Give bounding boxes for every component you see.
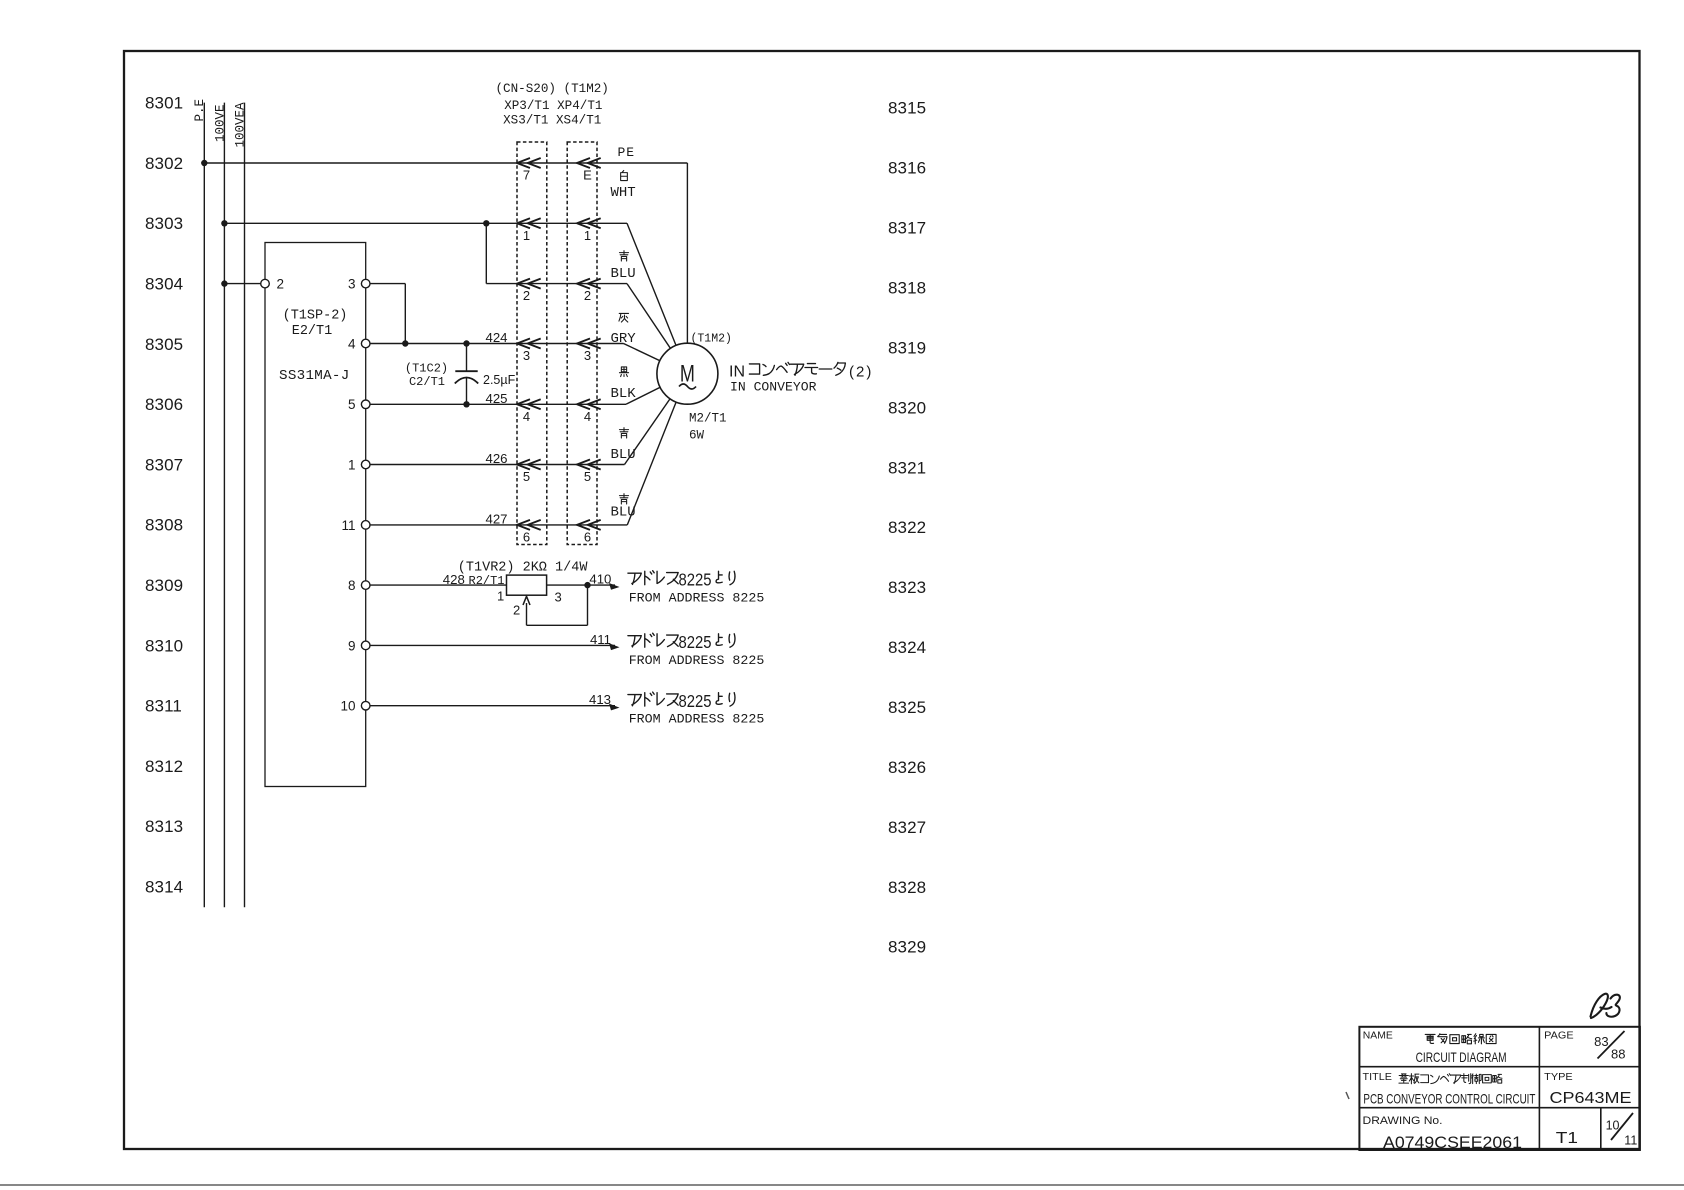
svg-text:T1: T1 — [1556, 1130, 1578, 1147]
contact XP3/XS3 pin 1 — [517, 218, 541, 228]
wire 100VE bus to connector pin 2 — [224, 283, 260, 285]
svg-text:8320: 8320 — [888, 398, 926, 417]
svg-text:4: 4 — [584, 409, 591, 424]
wire colour GRY — [611, 313, 637, 347]
svg-text:FROM ADDRESS 8225: FROM ADDRESS 8225 — [629, 653, 765, 668]
svg-text:(T1C2): (T1C2) — [405, 361, 448, 375]
svg-text:413: 413 — [589, 692, 611, 707]
svg-text:8225: 8225 — [679, 570, 712, 590]
svg-text:(T1SP-2): (T1SP-2) — [283, 309, 348, 324]
svg-text:8308: 8308 — [145, 516, 183, 535]
svg-text:WHT: WHT — [611, 185, 636, 201]
motor M2/T1 (T1M2) IN CONVEYOR MOTOR(2) 6W — [657, 343, 718, 404]
svg-text:8304: 8304 — [145, 275, 183, 294]
contact XP4/XS4 pin 5 — [577, 460, 601, 470]
contact XP4/XS4 pin 3 — [577, 339, 601, 349]
svg-text:428: 428 — [443, 572, 465, 587]
svg-text:CP643ME: CP643ME — [1550, 1090, 1632, 1107]
svg-text:7: 7 — [523, 168, 530, 183]
svg-text:GRY: GRY — [611, 331, 637, 347]
svg-text:3: 3 — [584, 348, 591, 363]
svg-text:BLU: BLU — [611, 266, 636, 282]
connector SS31MA-J (T1SP-2) E2/T1 — [265, 243, 366, 787]
svg-text:8314: 8314 — [145, 878, 183, 897]
svg-text:BLK: BLK — [611, 386, 637, 402]
svg-text:8319: 8319 — [888, 338, 926, 357]
contact XP3/XS3 pin 3 — [517, 339, 541, 349]
svg-text:8326: 8326 — [888, 758, 926, 777]
contact XP3/XS3 pin 7 — [517, 158, 541, 168]
svg-text:2: 2 — [523, 288, 530, 303]
svg-text:8225: 8225 — [679, 632, 712, 652]
svg-text:2: 2 — [277, 277, 285, 292]
svg-text:NAME: NAME — [1363, 1030, 1393, 1042]
wire 425 BLK row 8306 pin 5 to motor — [370, 403, 626, 405]
svg-text:2.5µF: 2.5µF — [483, 373, 516, 387]
svg-text:8323: 8323 — [888, 578, 926, 597]
svg-text:83: 83 — [1594, 1034, 1608, 1049]
svg-text:88: 88 — [1611, 1046, 1625, 1061]
capacitor C2/T1 (T1C2) 2.5uF — [466, 344, 468, 372]
svg-text:R2/T1: R2/T1 — [469, 574, 505, 588]
svg-text:8309: 8309 — [145, 576, 183, 595]
svg-text:8306: 8306 — [145, 395, 183, 414]
contact XP3/XS3 pin 6 — [517, 520, 541, 530]
svg-text:A0749CSEE2061: A0749CSEE2061 — [1383, 1133, 1522, 1152]
pin 11 — [361, 521, 370, 530]
svg-text:1: 1 — [348, 457, 356, 472]
wire colour WHT — [611, 170, 636, 201]
svg-text:8327: 8327 — [888, 818, 926, 837]
svg-text:TYPE: TYPE — [1544, 1071, 1573, 1083]
svg-text:8310: 8310 — [145, 636, 183, 655]
svg-text:P.E: P.E — [193, 99, 207, 122]
svg-text:M2/T1: M2/T1 — [689, 412, 727, 426]
svg-text:CIRCUIT DIAGRAM: CIRCUIT DIAGRAM — [1416, 1049, 1507, 1065]
svg-text:8303: 8303 — [145, 214, 183, 233]
svg-text:2: 2 — [584, 288, 591, 303]
svg-text:3: 3 — [523, 348, 530, 363]
title block — [1359, 1027, 1640, 1150]
svg-text:100VEA: 100VEA — [233, 102, 247, 148]
wire pin 3 branch to wire 424 — [370, 283, 405, 285]
svg-text:10: 10 — [340, 699, 355, 714]
wire colour BLU — [611, 251, 636, 282]
svg-text:9: 9 — [348, 638, 356, 653]
net 100VEA bus — [244, 103, 246, 908]
svg-text:8305: 8305 — [145, 335, 183, 354]
svg-text:TITLE: TITLE — [1363, 1071, 1392, 1083]
pin 8 — [361, 581, 370, 590]
svg-text:6: 6 — [523, 529, 530, 544]
svg-text:(CN-S20) (T1M2): (CN-S20) (T1M2) — [496, 82, 609, 96]
svg-text:1: 1 — [497, 589, 504, 604]
svg-text:424: 424 — [485, 330, 507, 345]
svg-text:XS3/T1 XS4/T1: XS3/T1 XS4/T1 — [503, 114, 601, 128]
pin 3 — [361, 279, 370, 288]
svg-text:E: E — [583, 168, 592, 183]
wire colour BLU — [611, 494, 636, 521]
pin 5 — [361, 400, 370, 409]
svg-text:XP3/T1 XP4/T1: XP3/T1 XP4/T1 — [504, 99, 602, 113]
svg-text:8318: 8318 — [888, 279, 926, 298]
net P.E bus — [203, 103, 205, 908]
svg-text:1: 1 — [523, 228, 530, 243]
connector XP3/T1 XS3/T1 dashed outline — [517, 142, 547, 545]
pin 9 — [361, 641, 370, 650]
wire WHT row 8303 from 100VE bus to motor — [224, 222, 627, 224]
wire 427 BLU row 8308 pin 11 to motor — [370, 524, 627, 526]
svg-text:4: 4 — [523, 409, 530, 424]
contact XP4/XS4 pin E — [577, 158, 601, 168]
wire 413 row 8311 signal to address 8225 — [370, 705, 615, 707]
svg-text:8313: 8313 — [145, 817, 183, 836]
svg-text:C2/T1: C2/T1 — [409, 375, 445, 389]
svg-text:BLU: BLU — [611, 447, 636, 463]
svg-text:IN: IN — [729, 364, 745, 381]
svg-text:8312: 8312 — [145, 757, 183, 776]
svg-text:FROM ADDRESS 8225: FROM ADDRESS 8225 — [629, 712, 765, 727]
signal 410 FROM ADDRESS 8225 — [628, 570, 735, 590]
svg-text:E2/T1: E2/T1 — [292, 324, 333, 339]
svg-text:411: 411 — [590, 632, 611, 647]
net 100VE bus — [223, 103, 225, 908]
svg-text:10: 10 — [1606, 1119, 1620, 1133]
contact XP4/XS4 pin 1 — [577, 218, 601, 228]
wire 411 row 8310 signal to address 8225 — [370, 644, 615, 646]
svg-text:4: 4 — [348, 336, 356, 351]
svg-text:8329: 8329 — [888, 938, 926, 957]
svg-text:8311: 8311 — [145, 697, 182, 716]
handwritten page mark A3 — [1591, 994, 1612, 1018]
svg-text:8307: 8307 — [145, 455, 183, 474]
svg-text:3: 3 — [555, 589, 562, 604]
wire 426 BLU row 8307 pin 1 to motor — [370, 464, 625, 466]
svg-text:8: 8 — [348, 578, 356, 593]
pin 4 — [361, 339, 370, 348]
svg-text:8225: 8225 — [679, 691, 712, 711]
svg-text:1: 1 — [584, 228, 591, 243]
contact XP3/XS3 pin 5 — [517, 460, 541, 470]
svg-text:6: 6 — [584, 529, 591, 544]
contact XP3/XS3 pin 4 — [517, 399, 541, 409]
svg-text:8321: 8321 — [888, 458, 926, 477]
svg-text:8325: 8325 — [888, 698, 926, 717]
svg-text:(T1M2): (T1M2) — [691, 333, 732, 346]
pin 2 — [261, 279, 270, 288]
contact XP4/XS4 pin 6 — [577, 520, 601, 530]
svg-text:8315: 8315 — [888, 99, 926, 118]
svg-text:6W: 6W — [689, 429, 705, 443]
svg-text:8322: 8322 — [888, 518, 926, 537]
contact XP4/XS4 pin 2 — [577, 279, 601, 289]
svg-text:SS31MA-J: SS31MA-J — [279, 368, 350, 384]
wire 424 GRY row 8305 pin 4 to motor — [370, 343, 624, 345]
svg-text:8324: 8324 — [888, 638, 926, 657]
svg-text:11: 11 — [341, 518, 355, 533]
svg-text:PE: PE — [618, 145, 636, 160]
pin 1 — [361, 460, 370, 469]
connector XP4/T1 XS4/T1 dashed outline — [567, 142, 597, 545]
wire PE row 8302 from P.E bus to motor — [204, 162, 687, 164]
svg-text:11: 11 — [1624, 1134, 1637, 1148]
svg-text:5: 5 — [523, 469, 530, 484]
wire BLU row 8304 to motor — [486, 283, 627, 285]
svg-text:426: 426 — [485, 451, 507, 466]
svg-text:425: 425 — [485, 391, 507, 406]
svg-text:PCB CONVEYOR CONTROL CIRCUIT: PCB CONVEYOR CONTROL CIRCUIT — [1363, 1091, 1535, 1107]
svg-text:DRAWING No.: DRAWING No. — [1363, 1115, 1443, 1127]
svg-text:(2): (2) — [849, 364, 873, 381]
svg-text:8316: 8316 — [888, 159, 926, 178]
svg-text:5: 5 — [348, 397, 356, 412]
svg-text:8328: 8328 — [888, 878, 926, 897]
contact XP4/XS4 pin 4 — [577, 399, 601, 409]
wire colour BLU — [611, 428, 636, 463]
svg-text:427: 427 — [485, 512, 507, 527]
contact XP3/XS3 pin 2 — [517, 279, 541, 289]
svg-text:BLU: BLU — [611, 505, 636, 521]
svg-text:2: 2 — [513, 603, 520, 618]
svg-text:410: 410 — [589, 572, 611, 587]
svg-text:FROM ADDRESS 8225: FROM ADDRESS 8225 — [629, 590, 765, 605]
wire branch 8303 to 8304 — [485, 223, 487, 283]
svg-text:PAGE: PAGE — [1544, 1030, 1573, 1042]
svg-text:IN CONVEYOR: IN CONVEYOR — [730, 380, 817, 395]
wire colour BLK — [611, 367, 637, 402]
svg-text:100VE: 100VE — [213, 104, 227, 142]
svg-text:5: 5 — [584, 469, 591, 484]
svg-text:3: 3 — [348, 277, 356, 292]
svg-text:8317: 8317 — [888, 219, 926, 238]
pin 10 — [361, 701, 370, 710]
svg-text:8302: 8302 — [145, 154, 183, 173]
potentiometer R2/T1 (T1VR2) 2KOhm 1/4W wire 428 — [370, 584, 507, 586]
svg-text:8301: 8301 — [145, 94, 183, 113]
